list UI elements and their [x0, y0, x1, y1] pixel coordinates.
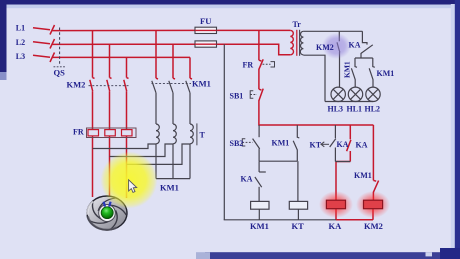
contact KT delayed NO — [334, 125, 336, 138]
wire control hot drop (from L1) — [258, 30, 260, 60]
wire KM2 pole3 drop — [126, 57, 128, 77]
svg-text:KM1: KM1 — [160, 183, 179, 193]
wire KM2 pole2 drop — [109, 44, 111, 77]
svg-text:KT: KT — [310, 141, 322, 150]
wire SB1 to rail corner — [259, 100, 374, 125]
svg-text:FU: FU — [200, 16, 211, 26]
wire coil1 descender — [155, 144, 157, 179]
svg-text:KM2: KM2 — [364, 221, 383, 231]
wire lamp node line — [355, 57, 373, 59]
wire tap 1 to motor lead 1 — [93, 144, 157, 149]
svg-text:KM1: KM1 — [272, 139, 290, 148]
svg-text:SB1: SB1 — [230, 92, 244, 101]
contact KM1 (HL1 branch) — [355, 58, 357, 67]
contactor KM1 pole1 blade — [152, 81, 156, 93]
thermal relay FR heater box — [87, 128, 137, 138]
wire KM1 pole2 drop — [172, 44, 174, 78]
contact KM1 NO (in KM2 branch) — [373, 179, 376, 182]
relay coil KA (energized glow) — [319, 191, 353, 218]
contactor KM2 pole2 blade — [110, 77, 112, 80]
svg-text:FR: FR — [73, 128, 84, 137]
svg-text:HL2: HL2 — [365, 105, 381, 114]
svg-text:KM1: KM1 — [250, 221, 269, 231]
wire KM1 pole1 to coil T1 — [155, 93, 157, 124]
motor shutter blades — [87, 198, 126, 230]
button SB2 NO — [258, 125, 260, 137]
FR heater element 2 — [105, 130, 116, 136]
svg-text:KA: KA — [356, 141, 368, 150]
motor inner ring — [99, 205, 116, 222]
wire KM2 pole3 to FR — [126, 91, 128, 129]
contactor KM1 pole3 tick — [190, 77, 192, 80]
wire KM1 pole3 drop — [189, 57, 191, 78]
wire motor lead 3 — [126, 137, 128, 199]
thermal relay FR NC actuator — [263, 62, 275, 67]
wire red bottom rail segment — [336, 219, 373, 221]
transformer Tr secondary winding — [300, 31, 303, 55]
wire L1 stub — [33, 28, 50, 30]
autotransformer T coil 2 — [173, 124, 176, 144]
contact KM1 (HL2 branch) — [373, 58, 375, 67]
svg-text:KM1: KM1 — [354, 171, 372, 180]
contact KM1 NO (self hold) — [297, 125, 299, 138]
svg-text:KM2: KM2 — [67, 80, 86, 90]
transformer Tr core (primary side) — [296, 30, 298, 56]
wire KM1 pole1 drop — [155, 31, 157, 79]
wire KM2 pole1 drop — [92, 31, 94, 78]
svg-text:KA: KA — [241, 175, 253, 184]
wire motor lead 1 — [92, 137, 94, 198]
wire L1 bus after fuse to Tr — [217, 29, 291, 31]
contact KM2 (lamp branch) — [338, 31, 340, 41]
contactor coil KM2 (energized glow) — [356, 191, 390, 218]
FR heater element 3 — [122, 130, 133, 136]
wire L1 bus — [53, 29, 196, 31]
svg-text:KM1: KM1 — [343, 61, 352, 78]
svg-text:HL1: HL1 — [347, 105, 363, 114]
contact KA NC (before KM1 coil) — [258, 161, 260, 172]
wire tap 3 to motor lead 3 — [127, 144, 191, 164]
wire junction line — [259, 160, 297, 162]
svg-text:Tr: Tr — [293, 20, 302, 29]
wire star-point bus — [156, 178, 190, 180]
svg-text:QS: QS — [54, 68, 66, 78]
svg-text:SB2: SB2 — [230, 139, 244, 148]
yellow cursor highlight — [101, 152, 158, 209]
disconnect switch QS dashed linkage — [59, 28, 61, 66]
button SB1 NC blade — [259, 88, 262, 91]
wire KM1 pole2 to coil T2 — [172, 93, 174, 124]
wire KA contact to KA coil — [336, 162, 350, 201]
highlight ellipse on KM2 lamp contact — [322, 33, 351, 59]
wire coil3 descender — [189, 144, 191, 179]
svg-text:KA: KA — [329, 221, 343, 231]
wire KM1 pole3 to coil T3 — [189, 93, 191, 124]
contact KA NO (control) — [349, 125, 351, 139]
svg-text:KM1: KM1 — [192, 79, 211, 89]
wire KM2 pole1 to FR — [92, 91, 94, 129]
wire L3 bus — [53, 56, 191, 58]
motor M body — [87, 196, 127, 230]
FR heater element 1 — [88, 130, 99, 136]
svg-text:FR: FR — [243, 61, 254, 70]
wire L3 stub — [33, 55, 50, 57]
contactor KM1 pole3 blade — [186, 81, 190, 93]
wire tap 2 to motor lead 2 — [110, 144, 174, 157]
contactor KM2 dashed linkage — [89, 85, 130, 87]
timer coil KT — [289, 201, 307, 209]
wire coil2 descender — [172, 144, 174, 179]
lamp HL3 — [331, 87, 345, 101]
button SB2 actuator — [242, 139, 252, 146]
switch QS pole 1 blade — [50, 25, 55, 35]
autotransformer core bar — [196, 123, 198, 145]
contactor KM2 pole3 blade — [127, 77, 129, 80]
switch QS pole 3 blade — [50, 53, 55, 63]
svg-text:L2: L2 — [16, 38, 25, 47]
svg-text:HL3: HL3 — [328, 105, 344, 114]
svg-text:KA: KA — [349, 41, 361, 50]
motor blue marks — [104, 202, 105, 207]
wire L2 bus — [53, 43, 196, 45]
contact KA (lamp branch) — [362, 31, 367, 44]
wire motor lead 2 — [109, 137, 111, 200]
wire KT coil stub — [297, 161, 299, 201]
button SB1 actuator — [250, 91, 257, 99]
svg-text:KA: KA — [337, 140, 349, 149]
transformer Tr primary winding — [290, 30, 293, 54]
fuse FU body 2 — [195, 41, 217, 47]
wire KT coil bottom stub — [297, 209, 299, 220]
fuse FU body 1 — [195, 27, 217, 33]
svg-text:L3: L3 — [16, 52, 25, 61]
mouse cursor — [129, 180, 137, 193]
autotransformer T coil 1 — [156, 124, 159, 144]
svg-text:T: T — [200, 131, 206, 140]
svg-text:L1: L1 — [16, 24, 25, 33]
svg-text:KT: KT — [292, 221, 305, 231]
wire control return drop (from L2) — [223, 44, 225, 220]
wire KM1 coil bottom stub — [258, 209, 260, 220]
KT delay arrow — [322, 143, 330, 145]
contactor KM1 pole1 tick — [156, 77, 158, 80]
contactor KM1 pole2 blade — [169, 81, 173, 93]
contactor KM1 pole2 tick — [173, 77, 175, 80]
wire KM2 pole2 to FR — [109, 91, 111, 129]
wire bottom rail — [224, 219, 336, 221]
autotransformer T coil 3 — [190, 124, 193, 144]
wire secondary top lead — [303, 30, 362, 32]
wire L2 stub — [33, 42, 50, 44]
relay coil KM1 — [251, 201, 269, 209]
svg-text:KM1: KM1 — [377, 69, 395, 78]
wire KM2 coil branch — [372, 125, 374, 180]
wire lamp bottom bus — [325, 101, 373, 103]
contactor KM1 dashed linkage — [152, 83, 192, 85]
lamp HL2 — [366, 87, 380, 101]
lamp HL1 — [348, 87, 362, 101]
wire KM2 coil bottom stub — [372, 209, 374, 220]
contact FR NC blade — [259, 59, 262, 62]
svg-text:KM2: KM2 — [316, 43, 334, 52]
switch QS pole 2 blade — [50, 39, 55, 49]
transformer Tr core (secondary side) — [299, 30, 301, 56]
wire FR to SB1 — [258, 69, 260, 89]
motor green cap — [101, 207, 113, 219]
wire secondary bottom lead — [303, 55, 325, 101]
wire KT to KA junction — [335, 161, 350, 163]
wire L2 bus after fuse, jog to Tr primary bottom — [217, 44, 291, 55]
contactor KM2 pole1 blade — [93, 77, 95, 80]
wire KA coil bottom stub — [335, 209, 337, 220]
